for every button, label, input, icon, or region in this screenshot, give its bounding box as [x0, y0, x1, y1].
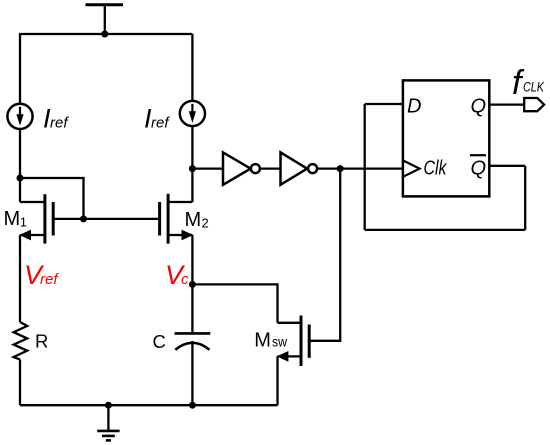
- svg-text:2: 2: [202, 216, 209, 231]
- junction capacitor bottom: [189, 402, 196, 409]
- svg-text:Q: Q: [471, 96, 487, 118]
- label M2: [185, 209, 209, 231]
- wire Vc to capacitor: [191, 284, 193, 333]
- svg-text:M: M: [185, 209, 202, 231]
- svg-text:1: 1: [20, 215, 27, 230]
- wire Qbar output: [489, 165, 525, 167]
- wire Vc to Msw drain: [192, 284, 277, 322]
- wire current source to M1 drain: [19, 129, 21, 202]
- junction on gate bus: [80, 215, 87, 222]
- junction Msw gate tap: [337, 165, 344, 172]
- wire Msw gate riser: [309, 169, 340, 341]
- wire Q output: [489, 103, 524, 105]
- resistor R: [14, 322, 28, 360]
- ground symbol: [97, 405, 119, 440]
- wire feedback right vertical: [524, 166, 526, 230]
- wire D input: [365, 103, 403, 105]
- transistor M1: [19, 194, 53, 243]
- svg-text:ref: ref: [50, 115, 69, 132]
- node Vref label: [24, 260, 59, 290]
- svg-text:c: c: [181, 271, 189, 288]
- wire feedback bottom: [365, 229, 526, 231]
- svg-text:Clk: Clk: [424, 158, 448, 180]
- label M1: [4, 208, 28, 230]
- svg-text:M: M: [4, 208, 21, 230]
- wire capacitor to bottom rail: [191, 341, 193, 405]
- label Iref (left): [43, 104, 69, 134]
- wire left branch down to current source: [19, 34, 21, 104]
- wire bottom rail: [20, 404, 278, 406]
- svg-text:M: M: [254, 330, 271, 352]
- inverter U2: [281, 152, 318, 184]
- node Vc label: [165, 260, 189, 290]
- node Vc junction: [189, 281, 196, 288]
- transistor M2: [160, 194, 194, 244]
- output port fCLK: [524, 98, 544, 111]
- wire M1 source down to resistor: [19, 235, 21, 322]
- inverter U1: [223, 152, 260, 184]
- wire D feedback vertical: [364, 104, 366, 230]
- svg-text:CLK: CLK: [523, 79, 545, 94]
- svg-text:sw: sw: [272, 334, 288, 350]
- power supply VDD symbol: [86, 5, 124, 34]
- pin label Qbar: [470, 155, 486, 179]
- svg-text:R: R: [35, 330, 48, 351]
- svg-text:C: C: [153, 331, 166, 352]
- current source I1 (left Iref): [7, 104, 32, 129]
- wire M2 source to Vc node: [191, 235, 193, 284]
- svg-text:Q: Q: [471, 158, 487, 180]
- wire node C to inverter 1: [192, 167, 223, 169]
- wire right branch down to current source 2: [191, 34, 193, 101]
- wire inverter2 to flip-flop Clk: [317, 167, 403, 169]
- node A junction (gate tie to drain): [17, 175, 24, 182]
- current source I2 (right Iref): [180, 101, 205, 126]
- wire gate bus M1-M2: [53, 218, 159, 220]
- wire inverter1 to inverter2: [260, 167, 281, 169]
- wire resistor to bottom rail: [19, 360, 21, 406]
- wire current source 2 to M2 drain: [191, 126, 193, 202]
- wire top rail: [19, 33, 192, 35]
- svg-text:ref: ref: [151, 115, 170, 132]
- junction ground: [105, 402, 112, 409]
- svg-text:D: D: [407, 96, 421, 118]
- junction on top rail: [101, 31, 108, 38]
- label Msw: [254, 330, 287, 352]
- label fCLK: [512, 64, 545, 102]
- transistor Msw: [277, 316, 310, 367]
- svg-text:ref: ref: [40, 271, 59, 288]
- label Iref (right): [144, 104, 170, 134]
- capacitor C: [175, 333, 211, 349]
- clock wedge: [403, 160, 420, 176]
- wire gate loop: [20, 178, 84, 219]
- flip-flop U3 box: [403, 80, 489, 196]
- node C junction (inverter tap): [189, 165, 196, 172]
- wire Msw source to bottom rail: [276, 356, 278, 405]
